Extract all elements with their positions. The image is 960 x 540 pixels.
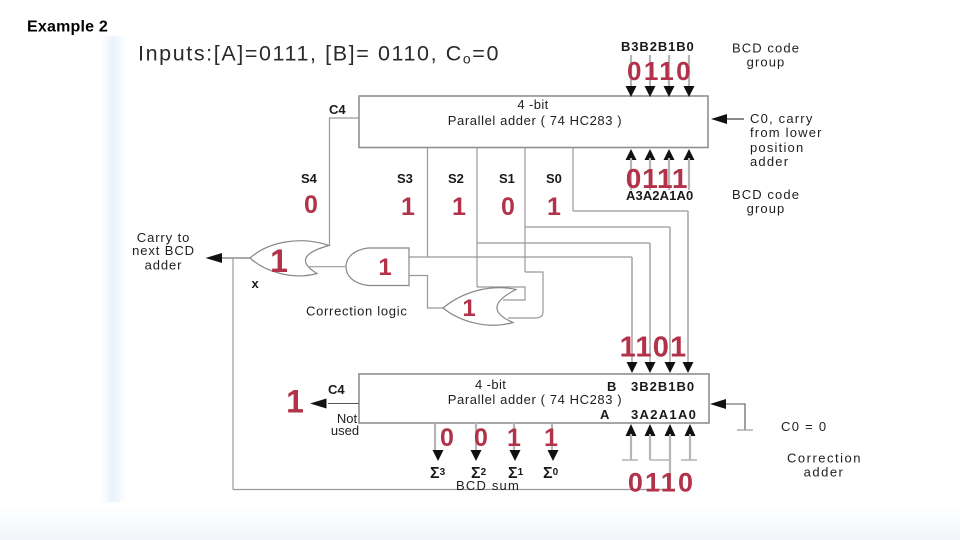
svg-text:C0 = 0: C0 = 0 xyxy=(781,419,827,434)
wire sum0 stem xyxy=(551,423,553,451)
svg-text:from lower: from lower xyxy=(750,125,823,140)
wire S0 horizontal to B0 column xyxy=(573,210,688,212)
svg-text:C4: C4 xyxy=(328,382,345,397)
svg-text:1: 1 xyxy=(507,424,521,452)
svg-text:BCD sum: BCD sum xyxy=(456,478,520,493)
svg-text:C0, carry: C0, carry xyxy=(750,111,814,126)
arrow C0 into U2 xyxy=(710,399,726,409)
tick A0 zero xyxy=(681,459,697,461)
wire B2 stem xyxy=(649,55,651,88)
arrow A3 up xyxy=(626,149,637,160)
arrow sum0 down xyxy=(548,450,559,461)
svg-text:0: 0 xyxy=(474,424,488,452)
svg-text:1: 1 xyxy=(286,384,304,420)
svg-text:group: group xyxy=(747,55,786,70)
svg-text:1101: 1101 xyxy=(620,332,688,364)
arrow carry out left xyxy=(206,253,223,263)
svg-text:Parallel adder ( 74 HC283 ): Parallel adder ( 74 HC283 ) xyxy=(448,392,622,407)
wire sum1 stem xyxy=(513,423,515,451)
arrow A3 up into U2 xyxy=(626,424,637,436)
svg-text:BCD code: BCD code xyxy=(732,187,800,202)
svg-text:adder: adder xyxy=(750,154,789,169)
wire S2 horizontal to B2 column xyxy=(477,242,650,244)
wire sum3 stem xyxy=(434,423,436,451)
svg-text:Parallel adder ( 74 HC283 ): Parallel adder ( 74 HC283 ) xyxy=(448,113,622,128)
arrow B0 xyxy=(684,86,695,97)
svg-text:1: 1 xyxy=(462,295,475,322)
wire C0 stem xyxy=(727,118,744,120)
svg-text:adder: adder xyxy=(145,258,183,273)
svg-text:4 -bit: 4 -bit xyxy=(475,377,506,392)
wire X down from output xyxy=(232,258,234,490)
svg-text:S1: S1 xyxy=(499,171,515,186)
svg-text:S2: S2 xyxy=(448,171,464,186)
arrow A0 up xyxy=(684,149,695,160)
wire S3 horizontal to B3 column xyxy=(409,256,632,258)
wire B3 column down xyxy=(631,257,633,362)
svg-text:used: used xyxy=(331,423,359,438)
svg-text:next BCD: next BCD xyxy=(132,243,195,258)
arrow sum3 down xyxy=(433,450,444,461)
wire A1 stem xyxy=(668,158,670,190)
svg-text:A3A2A1A0: A3A2A1A0 xyxy=(626,188,693,203)
svg-text:1: 1 xyxy=(452,193,466,221)
svg-text:A: A xyxy=(600,407,610,422)
svg-text:3A2A1A0: 3A2A1A0 xyxy=(631,407,697,422)
arrow B1 into U2 xyxy=(665,362,676,373)
svg-text:position: position xyxy=(750,140,804,155)
wire A2 stem xyxy=(649,158,651,190)
wire B0 column down xyxy=(687,211,689,362)
wire S3 vertical xyxy=(427,148,429,257)
wire A2 link to A1 column xyxy=(650,459,670,461)
op: top adder U1 xyxy=(359,96,708,148)
svg-text:0110: 0110 xyxy=(628,468,695,498)
svg-text:S0: S0 xyxy=(546,171,562,186)
svg-text:Correction logic: Correction logic xyxy=(306,304,408,319)
wire G1 output xyxy=(222,257,250,259)
svg-text:1: 1 xyxy=(378,254,391,281)
wire B1 column down xyxy=(669,227,671,362)
tick C0 end xyxy=(737,429,753,431)
wire X bottom run xyxy=(233,489,670,491)
svg-text:0: 0 xyxy=(440,424,454,452)
wire B3 stem xyxy=(630,55,632,88)
svg-text:group: group xyxy=(747,201,786,216)
svg-text:0: 0 xyxy=(501,193,515,221)
arrow B2 xyxy=(645,86,656,97)
wire A1 column to X run xyxy=(669,434,671,490)
or-gate G3 (points left) xyxy=(443,288,516,326)
wire S1 tap to OR3 lower input xyxy=(508,272,543,318)
svg-text:1: 1 xyxy=(547,193,561,221)
arrow C0 into U1 xyxy=(711,114,727,124)
svg-text:B: B xyxy=(607,379,616,394)
wire C0 stub U2 xyxy=(726,404,745,430)
tick A3 zero xyxy=(622,459,638,461)
or-gate G1 (output X, points left) xyxy=(250,241,329,276)
op: bottom adder U2 xyxy=(359,374,709,423)
wire S0 vertical xyxy=(572,148,574,211)
wire C4/S4 from U1 xyxy=(330,118,360,245)
wire S1 vertical xyxy=(524,148,526,272)
wire sum2 stem xyxy=(475,423,477,451)
svg-text:Example 2: Example 2 xyxy=(27,19,108,36)
svg-text:x: x xyxy=(252,276,260,291)
arrow B3 into U2 xyxy=(627,362,638,373)
wire A0 stem xyxy=(688,158,690,190)
svg-text:0: 0 xyxy=(304,191,318,219)
arrow B1 xyxy=(664,86,675,97)
svg-text:BCD code: BCD code xyxy=(732,41,800,56)
wire A2 stub xyxy=(649,434,651,460)
wire A3 stem xyxy=(630,158,632,190)
arrow A0 up into U2 xyxy=(685,424,696,436)
svg-text:S4: S4 xyxy=(301,171,318,186)
arrow B0 into U2 xyxy=(683,362,694,373)
arrow C4 left xyxy=(310,399,327,409)
arrow A1 up into U2 xyxy=(665,424,676,436)
svg-text:S3: S3 xyxy=(397,171,413,186)
wire B2 column down xyxy=(649,243,651,362)
svg-text:1: 1 xyxy=(401,193,415,221)
wire C4 out of U2 xyxy=(328,403,359,405)
wire S2 vertical xyxy=(476,148,478,287)
wire G2 output to G1 xyxy=(308,266,346,268)
svg-text:3B2B1B0: 3B2B1B0 xyxy=(631,379,695,394)
arrow sum2 down xyxy=(471,450,482,461)
svg-text:Inputs:[A]=0111, [B]= 0110, Co: Inputs:[A]=0111, [B]= 0110, Co=0 xyxy=(138,42,500,67)
svg-text:4 -bit: 4 -bit xyxy=(517,97,548,112)
wire G3 output to G2 lower input xyxy=(409,276,443,309)
svg-text:0110: 0110 xyxy=(627,56,693,86)
arrow A2 up into U2 xyxy=(645,424,656,436)
wire A0 stub xyxy=(689,434,691,460)
arrow A2 up xyxy=(645,149,656,160)
and-gate G2 (points left) xyxy=(346,248,409,286)
arrow A1 up xyxy=(664,149,675,160)
svg-text:Correction: Correction xyxy=(787,451,862,466)
svg-text:C4: C4 xyxy=(329,102,346,117)
svg-text:1: 1 xyxy=(270,243,288,279)
arrow B3 xyxy=(626,86,637,97)
arrow B2 into U2 xyxy=(645,362,656,373)
wire A3 stub xyxy=(630,434,632,460)
arrow sum1 down xyxy=(510,450,521,461)
svg-text:B3B2B1B0: B3B2B1B0 xyxy=(621,39,695,54)
svg-text:1: 1 xyxy=(544,424,558,452)
wire S1 horizontal to B1 column xyxy=(525,226,670,228)
wire B0 stem xyxy=(688,55,690,88)
wire B1 stem xyxy=(668,55,670,88)
svg-text:adder: adder xyxy=(804,465,845,480)
wire S2 tap to OR3 upper input xyxy=(477,287,525,300)
